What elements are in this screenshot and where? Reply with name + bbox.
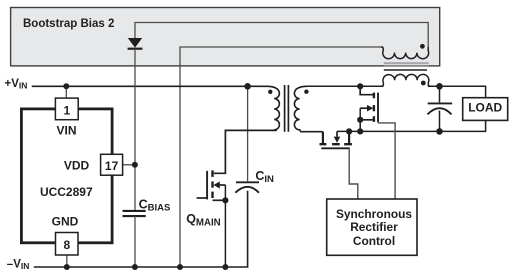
node pin1 / +VIN rail [63,83,69,89]
Q_MAIN mosfet [197,130,277,270]
node VDD / diode cathode [132,162,138,168]
pin 8 box [56,233,79,256]
bootstrap diode D1 [128,38,143,211]
svg-text:–VIN: –VIN [7,258,30,271]
svg-text:LOAD: LOAD [468,101,502,115]
pin 1 wire [65,86,67,98]
output capacitor C_out [428,86,453,134]
node C_BIAS / -VIN rail [132,264,138,270]
coupled inductor core line lower [384,69,427,71]
svg-text:Rectifier: Rectifier [350,220,398,234]
+VIN rail into transformer primary winding [32,86,280,130]
UCC2897 controller box [21,109,112,243]
pin 17 box [101,154,123,175]
sync rectifier high-side mosfet Q2 [357,83,395,199]
transformer secondary phase dot [304,90,308,94]
pin 17 wire [123,164,135,166]
transformer secondary winding [294,86,323,131]
svg-text:VDD: VDD [64,158,90,172]
-VIN rail [34,191,248,267]
sync rectifier low-side mosfet Q3 [320,128,358,199]
svg-text:1: 1 [64,103,71,117]
svg-text:UCC2897: UCC2897 [40,185,93,199]
coupled inductor core line upper (gray) [384,62,429,64]
svg-text:+VIN: +VIN [5,78,28,91]
secondary top wire to output [306,85,384,87]
synchronous rectifier control box [327,199,417,255]
transformer primary phase dot [268,90,272,94]
svg-text:VIN: VIN [56,124,76,138]
transformer core lines [284,85,286,132]
output return wire [337,120,486,131]
input capacitor C_IN [235,83,259,193]
svg-text:Bootstrap Bias 2: Bootstrap Bias 2 [23,18,114,30]
wire top (diode anode to bootstrap winding) [135,23,428,48]
pin 1 box [55,98,78,120]
svg-text:Synchronous: Synchronous [336,207,412,221]
bootstrap winding L_aux [381,47,428,59]
bootstrap bias shaded box [11,8,440,66]
node bootstrap return / -VIN rail [177,264,183,270]
pin 8 wire [66,255,68,267]
LOAD box [463,98,508,121]
svg-text:8: 8 [63,238,70,252]
node pin8 / -VIN rail [64,264,70,270]
svg-text:Control: Control [353,234,395,248]
bias capacitor C_BIAS [123,211,146,267]
bootstrap winding phase dot [420,44,425,49]
output inductor phase dot [421,81,426,86]
output inductor L_out [381,74,430,86]
svg-text:17: 17 [105,159,119,173]
node: inductor output junction [436,83,443,90]
wire bootstrap winding left end down to -VIN rail [180,47,383,267]
svg-text:GND: GND [52,214,79,228]
